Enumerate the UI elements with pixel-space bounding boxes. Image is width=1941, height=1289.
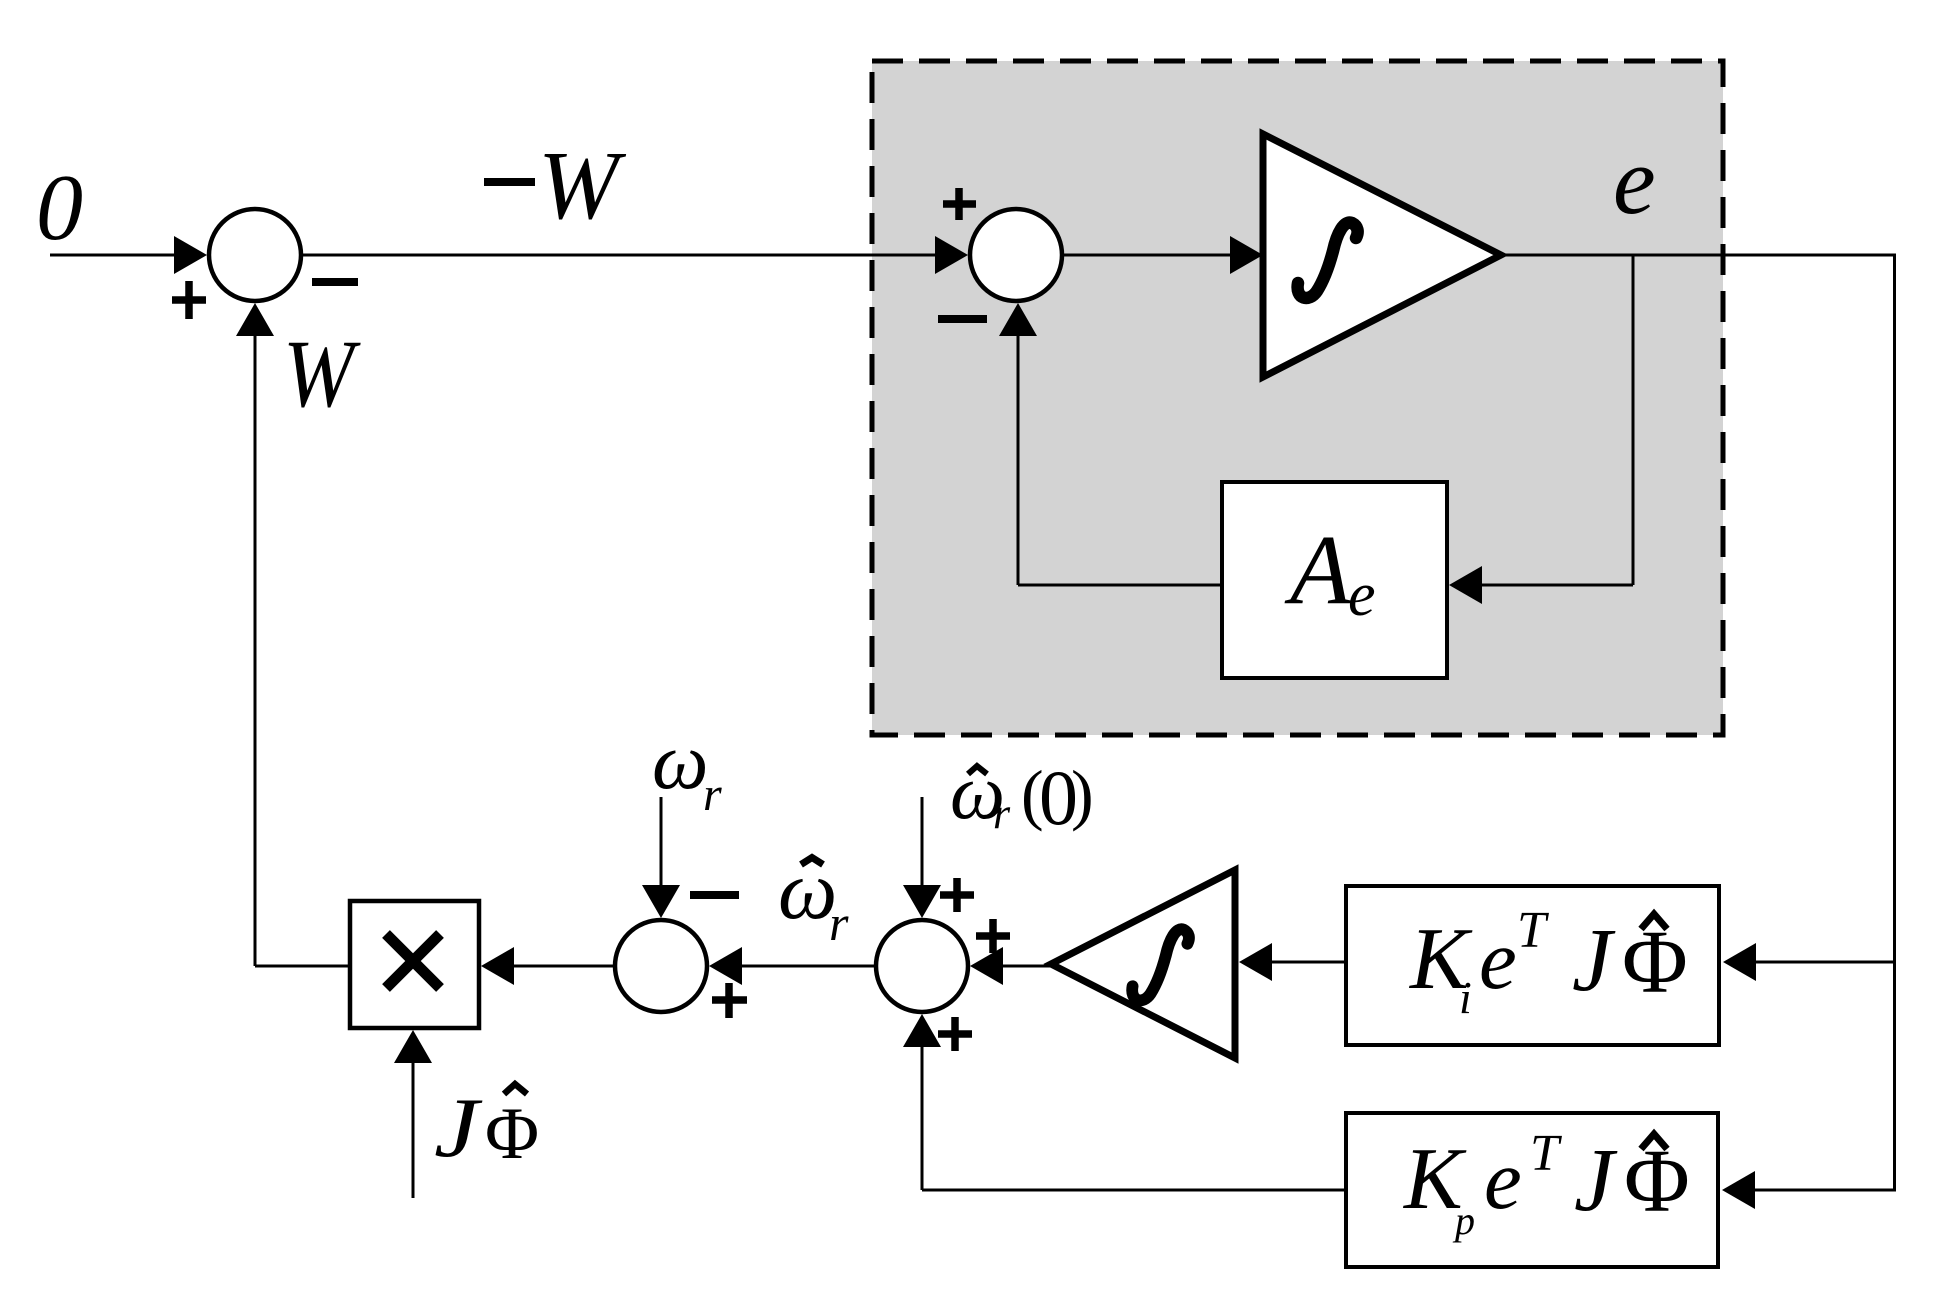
svg-text:i: i xyxy=(1459,972,1472,1023)
wire e output xyxy=(1501,254,1896,257)
plus sign at S1 input xyxy=(172,281,206,319)
svg-text:0: 0 xyxy=(36,156,83,260)
block Ki gain xyxy=(1346,886,1719,1045)
svg-text:Φ: Φ xyxy=(485,1093,539,1175)
minus sign at S4 top input xyxy=(690,891,739,899)
svg-text:W: W xyxy=(283,320,361,427)
wire S2 to integrator U1 xyxy=(1062,236,1263,274)
adaptive observer dashed region xyxy=(872,61,1723,735)
svg-text:J: J xyxy=(434,1081,483,1175)
wire M1 output W feedback to S1 xyxy=(236,303,350,966)
wire U2 to summing junction S3 xyxy=(970,947,1051,985)
wire Kp feedback to S3 bottom xyxy=(903,1014,1346,1190)
plus sign at S3 bottom input xyxy=(938,1017,972,1051)
integrator U2 triangle xyxy=(1051,870,1235,1058)
wire Ae output to S2 minus input xyxy=(999,303,1222,585)
minus sign at S2 lower input xyxy=(938,315,987,323)
svg-text:e: e xyxy=(1348,561,1376,629)
minus sign at S1 output xyxy=(312,278,358,286)
svg-text:ω: ω xyxy=(652,718,708,806)
wire e net right side down xyxy=(1893,254,1896,1191)
svg-text:e: e xyxy=(1613,127,1656,234)
svg-text:W: W xyxy=(538,132,627,239)
svg-text:A: A xyxy=(1284,514,1352,625)
wire e net to block Ki xyxy=(1723,943,1896,981)
summing junction S2 xyxy=(970,209,1062,301)
svg-text:r: r xyxy=(993,789,1011,838)
label J Phi hat input xyxy=(434,1081,539,1175)
summing junction S4 xyxy=(615,920,707,1012)
node e label xyxy=(1613,127,1656,234)
svg-text:e: e xyxy=(1479,913,1517,1007)
wire omega_r_hat(0) into S3 top xyxy=(903,797,941,918)
integrator U1 triangle xyxy=(1263,134,1501,377)
svg-text:Φ: Φ xyxy=(1624,1132,1690,1231)
svg-text:T: T xyxy=(1530,1125,1562,1182)
svg-text:Φ: Φ xyxy=(1622,913,1688,1012)
block Ae xyxy=(1222,482,1447,678)
block Kp gain xyxy=(1346,1113,1718,1267)
svg-text:J: J xyxy=(1574,1131,1618,1230)
wire S1 to summing junction S2 xyxy=(301,236,968,274)
label -W xyxy=(484,132,627,239)
node 0 input label xyxy=(36,156,83,260)
wire input 0 to summing junction S1 xyxy=(50,236,207,274)
label omega_r_hat(0) xyxy=(950,748,1094,841)
svg-text:e: e xyxy=(1484,1133,1522,1227)
wire J Phi hat into M1 bottom xyxy=(394,1030,432,1198)
wire S4 to multiplier M1 xyxy=(481,947,615,985)
svg-text:p: p xyxy=(1452,1198,1475,1243)
summing junction S3 xyxy=(876,920,968,1012)
label W feedback xyxy=(283,320,361,427)
plus sign at S3 top input xyxy=(940,878,974,912)
svg-text:): ) xyxy=(1071,756,1094,832)
plus sign at S4 right input xyxy=(712,983,747,1018)
svg-text:r: r xyxy=(703,768,722,821)
wire e feedback branch down to Ae xyxy=(1449,255,1633,604)
svg-text:J: J xyxy=(1572,911,1616,1010)
wire e net to block Kp xyxy=(1722,1171,1896,1209)
plus sign at S2 input xyxy=(943,188,976,220)
wire omega_r into S4 top xyxy=(642,797,680,918)
label omega_r_hat xyxy=(778,844,849,951)
label omega_r xyxy=(652,718,722,821)
plus sign S3 upper right xyxy=(976,919,1010,953)
summing junction S1 xyxy=(209,209,301,301)
svg-text:r: r xyxy=(829,895,849,951)
wire S3 to summing junction S4 xyxy=(709,947,876,985)
svg-text:T: T xyxy=(1517,902,1549,959)
multiplier M1 box xyxy=(350,901,479,1028)
wire Ki to integrator U2 xyxy=(1239,943,1346,981)
